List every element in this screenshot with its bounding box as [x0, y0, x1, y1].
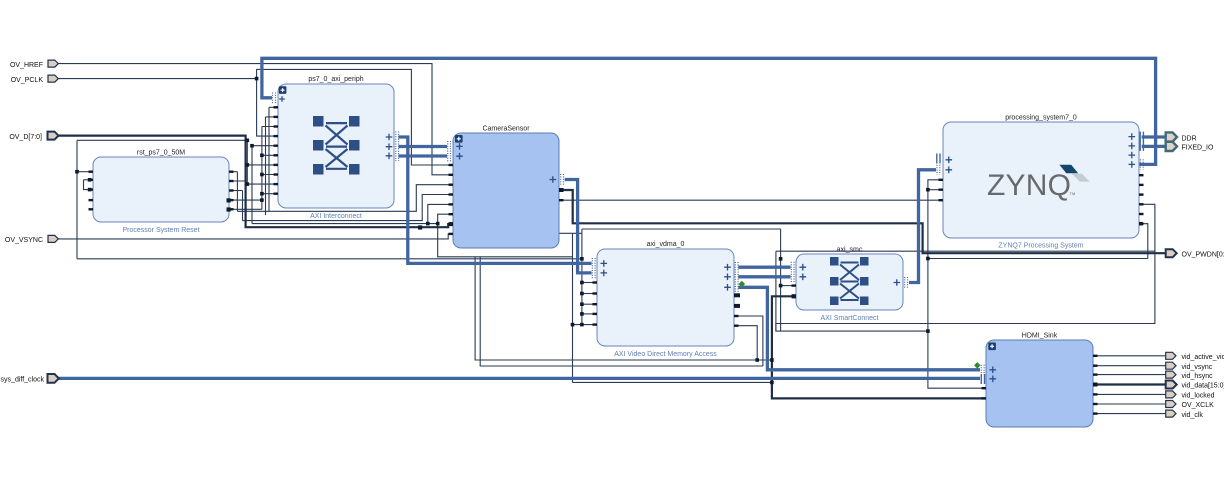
wire v572.5	[572, 233, 574, 382]
wire rst left pin2 stub	[84, 179, 94, 181]
junction (247,184)	[246, 182, 250, 186]
svg-text:sys_diff_clock: sys_diff_clock	[1, 377, 45, 384]
wire smc to ZYNQ HP0	[909, 170, 936, 283]
wire vdma M_S2MM to smc	[738, 275, 790, 278]
svg-text:ps7_0_axi_periph: ps7_0_axi_periph	[308, 76, 363, 83]
svg-text:vid_locked: vid_locked	[1182, 393, 1215, 400]
wire vdma right pin3	[734, 316, 763, 366]
svg-text:axi_smc: axi_smc	[837, 247, 863, 254]
junction (928,331)	[926, 329, 930, 333]
zynq left interface plus pins	[946, 157, 953, 174]
expand button hdmi	[988, 343, 996, 351]
wire M02_AXI to camera	[399, 154, 448, 157]
wire zynq pin4 long loop	[776, 204, 1155, 331]
wire OV_PCLK net	[58, 78, 256, 80]
junction (582,325)	[580, 323, 584, 327]
icon AXI SmartConnect	[830, 257, 869, 305]
svg-text:DDR: DDR	[1182, 135, 1197, 142]
block rst_ps7_0_50M	[93, 150, 229, 235]
periph right plus pins	[386, 134, 393, 159]
junction (582,314)	[580, 312, 584, 316]
wire OV_D bus	[58, 136, 453, 228]
svg-text:OV_PWDN[0:0]: OV_PWDN[0:0]	[1182, 251, 1224, 258]
svg-text:ZYNQ7 Processing System: ZYNQ7 Processing System	[998, 243, 1083, 250]
wire rst right pin2	[229, 180, 247, 182]
port OV_XCLK	[1166, 401, 1214, 410]
port FIXED_IO	[1166, 142, 1214, 152]
wire h382	[573, 381, 772, 383]
svg-text:CameraSensor: CameraSensor	[482, 126, 530, 133]
block HDMI_Sink	[986, 333, 1093, 428]
port OV_VSYNC	[5, 235, 58, 244]
vdma left plus pins	[601, 260, 608, 276]
svg-text:FIXED_IO: FIXED_IO	[1182, 145, 1214, 152]
wire clock h229 to smc	[582, 228, 781, 230]
svg-text:OV_HREF: OV_HREF	[10, 62, 43, 69]
junction (928,190)	[926, 188, 930, 192]
wire vdma stream to HDMI	[738, 287, 980, 370]
wire rst left pin3 stub	[84, 180, 94, 190]
wire clock h140	[77, 139, 247, 141]
junction (438,224)	[436, 222, 440, 226]
junction (90,180)	[88, 178, 92, 182]
wire M00_AXI to vdma	[399, 137, 592, 263]
wire clock trunk left	[77, 258, 582, 260]
svg-text:rst_ps7_0_50M: rst_ps7_0_50M	[137, 150, 185, 157]
vdma right plus pins	[724, 264, 731, 291]
wire OV_PWDN bus	[559, 190, 1166, 253]
svg-text:OV_D[7:0]: OV_D[7:0]	[9, 134, 42, 141]
wire OV_VSYNC net	[58, 234, 453, 239]
junction (582,259)	[580, 257, 584, 261]
junction (582,304)	[580, 302, 584, 306]
wire rst right pin5	[229, 208, 262, 210]
svg-text:AXI Video Direct Memory Access: AXI Video Direct Memory Access	[614, 351, 717, 358]
wire FIXED_IO	[1142, 145, 1166, 148]
pins zynq left	[939, 179, 944, 202]
svg-text:processing_system7_0: processing_system7_0	[1005, 115, 1077, 122]
camera left interface plus pins	[456, 143, 463, 159]
icon AXI Interconnect	[313, 116, 360, 175]
svg-text:vid_active_video: vid_active_video	[1182, 354, 1224, 361]
wire hdmi output wires	[1093, 355, 1166, 357]
svg-text:OV_XCLK: OV_XCLK	[1182, 402, 1215, 409]
svg-text:Processor System Reset: Processor System Reset	[122, 227, 199, 234]
wire clock vdma riser	[581, 229, 583, 325]
wire vdma M_MM2S to smc	[738, 266, 790, 269]
wire v252	[251, 146, 253, 224]
port vid_hsync	[1166, 371, 1213, 380]
junction (228,200)	[227, 198, 231, 202]
port OV_PCLK	[11, 75, 59, 84]
pins periph left (10)	[274, 106, 279, 195]
port vid_data[15:0]	[1166, 381, 1224, 390]
svg-text:vid_vsync: vid_vsync	[1182, 364, 1213, 371]
pins hdmi left	[982, 387, 987, 400]
svg-text:AXI Interconnect: AXI Interconnect	[310, 213, 362, 220]
port DDR	[1166, 132, 1197, 142]
junction (262,194)	[260, 192, 264, 196]
wire clock vertical x77	[76, 140, 78, 258]
zynq right interface plus pins	[1129, 133, 1136, 167]
expand button periph	[279, 86, 287, 101]
svg-text:OV_PCLK: OV_PCLK	[11, 77, 44, 84]
junction (247,140)	[246, 139, 250, 143]
junction (928,258)	[926, 257, 930, 261]
junction (582,282)	[580, 281, 584, 285]
svg-text:axi_vdma_0: axi_vdma_0	[647, 241, 685, 248]
junction (262,174)	[260, 173, 264, 177]
wire vdma aclk stubs	[582, 282, 597, 284]
junction (757,360)	[755, 358, 759, 362]
wire v261.9 resetn net	[261, 127, 263, 210]
wire v247.3 clock column	[246, 140, 248, 186]
hdmi left plus pins	[990, 367, 997, 383]
wire bundle hC branch	[428, 204, 453, 223]
block processing_system7_0	[943, 115, 1139, 250]
wire rst right pin3	[229, 190, 243, 192]
wire h233	[559, 232, 582, 234]
wire OV_HREF net	[58, 64, 453, 175]
junction (772,382)	[770, 381, 774, 385]
wire M01_AXI to camera	[399, 145, 448, 148]
junction (77,172)	[75, 170, 79, 174]
junction (262,155)	[260, 154, 264, 158]
wire M_AXI_GP0 net	[262, 58, 1156, 164]
port vid_locked	[1166, 391, 1215, 400]
svg-text:HDMI_Sink: HDMI_Sink	[1022, 333, 1058, 340]
pins vdma right	[734, 293, 740, 327]
block ps7_0_axi_periph (AXI Interconnect)	[278, 76, 394, 220]
wire v265.5	[265, 117, 267, 215]
svg-text:ZYNQ: ZYNQ	[987, 169, 1071, 202]
port vid_vsync	[1166, 362, 1213, 371]
camera right plus pin	[550, 176, 557, 183]
junction (228,209)	[227, 207, 231, 211]
pins zynq right (6)	[1139, 174, 1144, 225]
wire midA h360	[475, 257, 772, 360]
junction (252,146)	[250, 144, 254, 148]
junction (781,286)	[779, 284, 783, 288]
wire under-camera h256.8	[438, 224, 573, 257]
junction (90,190)	[88, 188, 92, 192]
svg-text:OV_VSYNC: OV_VSYNC	[5, 237, 43, 244]
junction (772,360)	[770, 358, 774, 362]
svg-text:vid_hsync: vid_hsync	[1182, 373, 1214, 380]
wire smc to HDMI bus	[772, 296, 986, 398]
pins rst right	[229, 171, 234, 211]
smc left plus pins	[800, 264, 807, 280]
junction (582,294)	[580, 292, 584, 296]
pins camera left (8)	[449, 164, 454, 235]
port vid_active_video	[1166, 352, 1224, 361]
svg-text:vid_data[15:0]: vid_data[15:0]	[1182, 383, 1224, 390]
pins vdma left (5)	[593, 281, 598, 326]
port OV_HREF	[10, 60, 58, 69]
wire bundle hC	[252, 214, 453, 223]
port OV_D[7:0]	[9, 132, 58, 141]
port vid_clk	[1166, 410, 1204, 419]
wire sys_diff_clock to HDMI	[58, 377, 980, 380]
wire bundle hB	[243, 195, 454, 221]
logo ZYNQ	[987, 165, 1090, 202]
wire OV_PCLK branch to S00_ACLK	[257, 79, 278, 137]
wire clock stub to rst pin1	[77, 171, 93, 173]
wire zynq bottom right thin	[776, 250, 1155, 252]
wire vdma right pin4	[734, 326, 757, 360]
junction (262,200)	[260, 198, 264, 202]
wire DDR	[1142, 135, 1166, 138]
wire v269	[268, 107, 270, 211]
wire camera to zynq pin3	[559, 199, 943, 201]
block CameraSensor	[453, 126, 559, 249]
port OV_PWDN[0:0]	[1166, 249, 1224, 258]
svg-text:vid_clk: vid_clk	[1182, 412, 1204, 419]
wire zynq fclk vertical	[928, 180, 986, 388]
junction (781,259)	[779, 257, 783, 261]
wire rst right pin4	[229, 199, 262, 201]
wire rst right pin1	[229, 171, 237, 173]
wire bundle hA	[237, 185, 453, 212]
wire midB h366	[480, 257, 763, 366]
wire OV_PCLK loop top	[257, 69, 453, 165]
svg-text:AXI SmartConnect: AXI SmartConnect	[821, 315, 879, 322]
block axi_smc	[796, 247, 903, 323]
green dot vdma stream	[739, 281, 746, 288]
wire zynq pin6 drop	[1139, 224, 1148, 259]
junction (428,224)	[426, 222, 430, 226]
pins camera right	[559, 188, 564, 201]
port sys_diff_clock	[1, 374, 59, 384]
wire camera video to vdma	[565, 180, 592, 273]
pins rst left	[89, 171, 94, 211]
smc right plus pin	[894, 279, 901, 286]
wire vid_data bus	[1093, 383, 1166, 385]
junction (247,165)	[246, 163, 250, 167]
pins smc left	[792, 284, 797, 297]
junction (420,227)	[418, 225, 422, 229]
junction (1141,224)	[1139, 222, 1143, 226]
junction (572,325)	[571, 323, 575, 327]
block axi_vdma_0	[597, 241, 734, 358]
pins hdmi right (7)	[1093, 355, 1098, 415]
green dot hdmi	[974, 362, 981, 369]
expand button camera	[455, 135, 463, 143]
wire smc aclk riser	[780, 229, 782, 331]
connector S00 periph	[273, 93, 276, 104]
svg-text:TM: TM	[1070, 191, 1076, 196]
junction (793,296)	[792, 294, 796, 298]
junction (257,79)	[255, 77, 259, 81]
wire zynq fclk stub pin2	[928, 189, 943, 191]
